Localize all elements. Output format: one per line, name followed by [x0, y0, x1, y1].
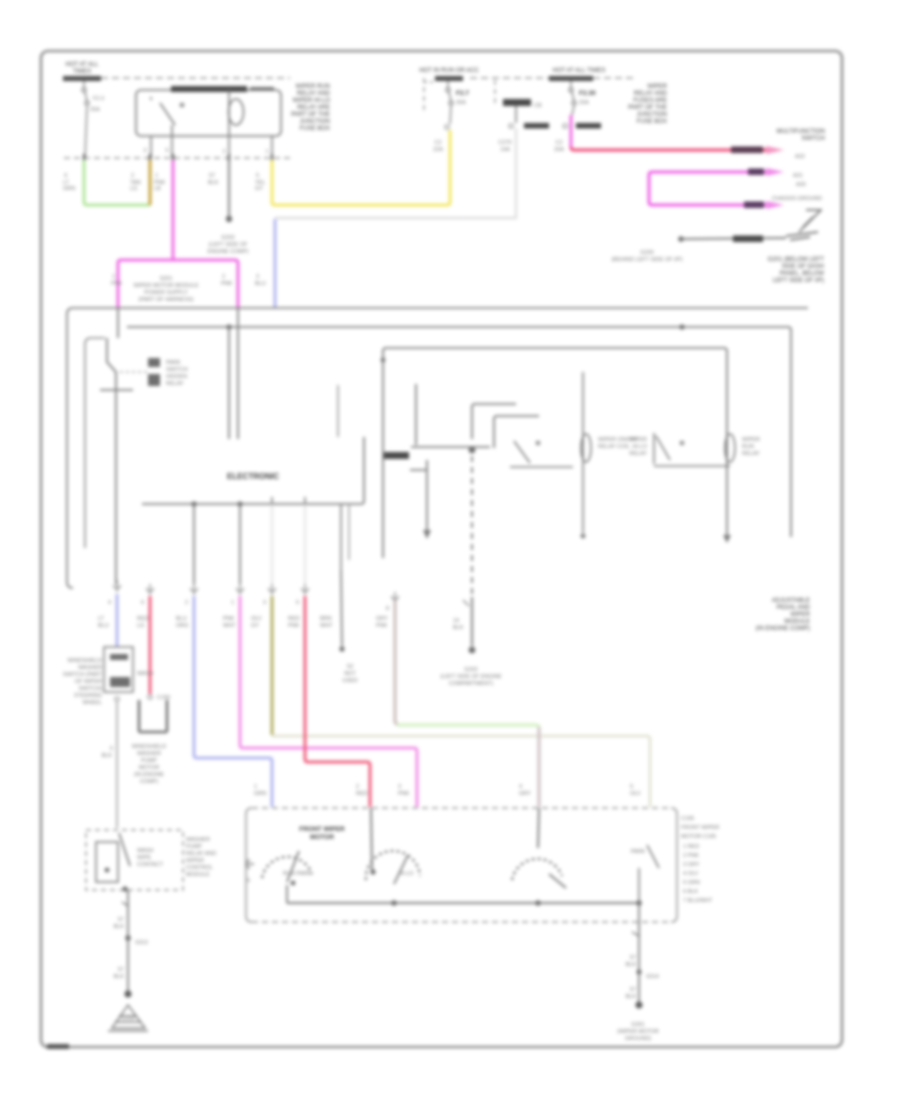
svg-text:OLV: OLV [251, 616, 262, 622]
svg-text:LB: LB [154, 186, 161, 192]
wire label at x330 [320, 616, 333, 629]
label splice S201 left [111, 274, 123, 287]
arrow bottom of x727 wire [723, 535, 731, 543]
svg-text:A30: A30 [796, 182, 806, 188]
svg-text:WIPER MOTOR MODULE: WIPER MOTOR MODULE [134, 283, 199, 289]
svg-text:SWITCH: SWITCH [801, 136, 825, 142]
label pin above motor box x539 [519, 784, 531, 797]
wire gray from switch down to wiper motor cam [116, 702, 118, 828]
svg-text:(LEFT SIDE OF: (LEFT SIDE OF [209, 242, 248, 248]
svg-text:WINDSHIELD: WINDSHIELD [67, 658, 102, 664]
wire black to chassis ground [681, 238, 786, 239]
label pin above motor box x370 [356, 784, 368, 797]
svg-text:ELECTRONIC: ELECTRONIC [227, 472, 279, 481]
svg-text:WIPER RUN: WIPER RUN [296, 84, 330, 90]
label C270 [524, 123, 549, 129]
wire park switch base bus [100, 389, 133, 391]
label fuse F1 value [90, 96, 104, 113]
svg-text:3: 3 [143, 148, 146, 154]
svg-text:PNK: PNK [223, 616, 235, 622]
svg-text:BLU: BLU [98, 623, 109, 629]
wire x341 to splice [341, 570, 342, 646]
node junction bus2 x240 [237, 501, 242, 506]
svg-text:WIPER: WIPER [629, 437, 647, 443]
dashed link park switch [120, 371, 147, 373]
wire x240 bus2 to pin [239, 504, 241, 584]
svg-text:WIPER: WIPER [647, 84, 667, 90]
connector pin (right fuse) [563, 124, 567, 128]
svg-text:RELAY: RELAY [629, 451, 647, 457]
wire periwinkle drop [194, 596, 272, 807]
wire yellow relay pin1 to fuse F7 [272, 130, 450, 205]
svg-text:COMP): COMP) [140, 779, 159, 785]
svg-text:C2: C2 [434, 140, 441, 146]
svg-text:2: 2 [222, 149, 225, 155]
svg-text:FUSE BOX: FUSE BOX [637, 119, 667, 125]
relay K1 coil [229, 90, 244, 136]
svg-text:CONTACT: CONTACT [137, 862, 164, 868]
wire tan relay pin3 down [149, 160, 152, 205]
fuse box bus bar (middle) [435, 76, 463, 81]
svg-text:F2.3: F2.3 [93, 96, 104, 102]
wire dusty drop to green [395, 600, 398, 724]
svg-text:STEERING: STEERING [74, 693, 102, 699]
wire black ground drop x472 [471, 597, 473, 646]
svg-text:JUNCTION: JUNCTION [637, 112, 667, 118]
svg-text:PNK: PNK [221, 281, 233, 287]
wire magenta U to multifunction switch [649, 172, 766, 205]
node: HOT AT ALL TIMES label (left fuse) [65, 62, 99, 75]
label relay K1 name on top edge [171, 86, 247, 92]
wire bus y447 [411, 446, 490, 448]
connector pins at module bottom [114, 580, 470, 606]
label pin above motor box x650 [630, 784, 641, 797]
label wire BLK [208, 173, 219, 186]
svg-text:G200: G200 [640, 250, 653, 256]
pin tick on left ground wire [122, 902, 128, 906]
label splice S201 right [221, 274, 233, 287]
label park switch [166, 360, 188, 387]
label relay coil R2 [742, 437, 760, 457]
wire stub bus2 x305 [304, 497, 306, 504]
svg-text:5: 5 [256, 173, 259, 179]
svg-text:MULTIFUNCTION: MULTIFUNCTION [776, 129, 825, 135]
svg-text:WINDSHIELD: WINDSHIELD [132, 744, 167, 750]
wire label BLU drop [98, 616, 109, 629]
svg-text:1: 1 [155, 173, 158, 179]
svg-text:G202: G202 [464, 667, 477, 673]
svg-text:BLK: BLK [208, 180, 219, 186]
svg-text:MODULE: MODULE [186, 872, 210, 878]
arrow bottom of x427 wire [423, 530, 431, 539]
node junction below corner x383 [381, 358, 386, 363]
svg-text:F2.7: F2.7 [456, 90, 469, 97]
pin number labels below module [108, 600, 389, 612]
label right ground wire lower [626, 987, 637, 1000]
hook wire hi [472, 404, 516, 439]
svg-text:BLU: BLU [255, 281, 266, 287]
node junction x472 y448 [469, 447, 476, 454]
svg-text:HOT AT ALL TIMES: HOT AT ALL TIMES [553, 68, 606, 74]
svg-text:1 RED: 1 RED [683, 844, 699, 850]
wire black relay pin2 to ground splice [228, 160, 230, 216]
svg-text:1: 1 [254, 784, 257, 790]
svg-text:GROUND): GROUND) [625, 1036, 651, 1042]
wire stub arc1 pivot to bus [286, 885, 288, 903]
label beside gray wire [102, 746, 113, 759]
arrow magenta top [766, 168, 784, 176]
svg-text:PART OF THE: PART OF THE [628, 105, 667, 111]
svg-text:RUN: RUN [742, 444, 754, 450]
svg-text:PANEL, BELOW: PANEL, BELOW [780, 271, 825, 277]
fuse box bus bar (left) [63, 76, 101, 81]
svg-text:WASHER: WASHER [186, 837, 210, 843]
fuse F1 (left) [82, 81, 89, 158]
svg-text:2 PNK: 2 PNK [683, 853, 699, 859]
svg-text:BLU: BLU [176, 616, 187, 622]
cam switch arc 1 [262, 857, 312, 878]
svg-text:6: 6 [247, 878, 250, 884]
node splice S2 [339, 646, 344, 651]
wire pale green horizontal [397, 725, 539, 728]
svg-text:(IN ENGINE COMP): (IN ENGINE COMP) [756, 626, 810, 632]
svg-text:14: 14 [453, 618, 459, 624]
cam switch arc 3 [512, 859, 562, 880]
wire green fuse to pin3 [84, 160, 150, 205]
svg-text:GY: GY [255, 186, 263, 192]
svg-text:HIDDEN: HIDDEN [166, 374, 187, 380]
svg-text:CHASSIS GROUND: CHASSIS GROUND [772, 196, 822, 202]
svg-text:PUMP: PUMP [141, 758, 157, 764]
svg-text:ENGINE COMP): ENGINE COMP) [208, 249, 249, 255]
wire blue from splice down to module [274, 219, 277, 308]
svg-text:FRONT WIPER: FRONT WIPER [681, 825, 719, 831]
svg-text:WASH: WASH [137, 671, 153, 677]
wire faint x305 bus2 to pin [304, 504, 306, 584]
wire rose drop [305, 596, 370, 807]
svg-text:RED: RED [137, 616, 149, 622]
svg-text:SIDE OF DASH: SIDE OF DASH [782, 264, 824, 270]
svg-text:4 OLV: 4 OLV [683, 871, 699, 877]
label right ground wire upper [626, 955, 637, 968]
connector blobs park switch [148, 358, 160, 367]
svg-text:WIPE: WIPE [137, 855, 151, 861]
svg-text:G100: G100 [121, 1016, 134, 1022]
node junction on bus at x682 [679, 324, 684, 329]
pin tick on right ground wire [632, 932, 639, 936]
svg-text:(LEFT SIDE OF ENGINE: (LEFT SIDE OF ENGINE [440, 674, 502, 680]
svg-text:RED: RED [356, 791, 368, 797]
svg-text:(BEHIND LEFT SIDE OF I/P): (BEHIND LEFT SIDE OF I/P) [611, 257, 682, 263]
text block top right (junction box note) [628, 84, 668, 125]
wire dusty continuation inside motor box [538, 808, 539, 848]
label below CB [498, 140, 511, 153]
wire internal x228 down [228, 327, 230, 439]
svg-text:CONTROL: CONTROL [186, 865, 213, 871]
wire x194 bus2 to pin [193, 504, 195, 584]
svg-text:WASHER: WASHER [78, 665, 102, 671]
svg-text:RELAY ARE: RELAY ARE [297, 105, 330, 111]
svg-text:HI-LO: HI-LO [399, 871, 414, 877]
svg-text:PNK: PNK [376, 623, 388, 629]
wiper blade arc1 [287, 851, 299, 882]
wire label OLV drop [251, 616, 262, 629]
svg-text:(PART OF HARNESS): (PART OF HARNESS) [138, 297, 193, 303]
relay K1 wiper relay box [136, 90, 281, 136]
svg-text:C270: C270 [498, 140, 511, 146]
switch blade right relay [654, 433, 730, 466]
wire white from C270 down and left to blue [275, 128, 516, 218]
svg-text:S201: S201 [160, 276, 173, 282]
svg-text:G301: G301 [631, 1022, 644, 1028]
svg-text:CB: CB [534, 103, 542, 109]
text block right side (adjustable pedal note) [756, 598, 811, 632]
label on magenta bottom arm [744, 202, 764, 209]
svg-text:22A: 22A [433, 147, 443, 153]
wire stub bus2 x272 [271, 497, 273, 504]
label wire PNK [154, 173, 166, 192]
svg-text:S2: S2 [347, 664, 354, 670]
label wire BLU entering module [255, 274, 266, 287]
svg-text:LG: LG [130, 186, 137, 192]
svg-text:HOT AT ALL: HOT AT ALL [65, 62, 99, 68]
svg-text:(WIPER MOTOR: (WIPER MOTOR [617, 1029, 659, 1035]
svg-text:GRY: GRY [519, 791, 531, 797]
svg-text:PNK: PNK [288, 623, 300, 629]
text block ground note right [768, 257, 825, 284]
svg-text:6: 6 [141, 600, 144, 606]
wire ground drop left [127, 890, 129, 992]
svg-text:FUSE BOX: FUSE BOX [300, 126, 330, 132]
svg-text:BRN: BRN [320, 616, 332, 622]
label right of cam box [186, 837, 216, 878]
chassis ground symbol [786, 210, 822, 240]
wire internal x338 stub [337, 385, 339, 437]
svg-text:WASHER: WASHER [137, 751, 161, 757]
arrow magenta bottom [766, 201, 784, 209]
arrow rose wire [766, 146, 784, 154]
page number label bottom-left [47, 1044, 69, 1049]
svg-text:ORG: ORG [176, 623, 189, 629]
wire internal x238 down [237, 308, 239, 439]
svg-text:PNK: PNK [398, 791, 410, 797]
svg-text:57: 57 [118, 967, 124, 973]
svg-text:PARK: PARK [631, 849, 646, 855]
svg-text:WIPER: WIPER [790, 612, 810, 618]
wire label at x472 [453, 618, 464, 631]
svg-text:30A: 30A [456, 100, 466, 106]
wire pale olive horizontal [272, 736, 650, 807]
svg-text:USED: USED [342, 678, 357, 684]
svg-text:BLK: BLK [102, 753, 113, 759]
svg-text:25A: 25A [90, 107, 100, 113]
svg-text:GY: GY [251, 623, 259, 629]
label left ground wire lower [114, 967, 125, 980]
wire red drop to washer pump [149, 596, 152, 694]
connector pin C (middle fuse) [445, 125, 449, 129]
switch S inside module [510, 441, 573, 467]
cam switch arc 2 [366, 851, 420, 880]
svg-text:TIMES: TIMES [73, 69, 91, 75]
svg-text:WIPER: WIPER [742, 437, 760, 443]
wire dashed fuse box top edge [101, 77, 290, 79]
svg-text:2: 2 [185, 600, 188, 606]
svg-text:2: 2 [356, 784, 359, 790]
label pin above motor box x272 [254, 784, 266, 797]
svg-text:HOT IN RUN OR ACC: HOT IN RUN OR ACC [419, 68, 479, 74]
wire dashed fuse box edges (middle) [424, 78, 549, 113]
label wire DKBLU on rose wire [731, 147, 763, 154]
label G202 [208, 235, 249, 255]
svg-text:FRONT WIPER: FRONT WIPER [299, 826, 345, 833]
module U1 wiper motor module box outline [67, 308, 808, 588]
svg-text:3: 3 [263, 600, 266, 606]
node junction on bus at x228 [226, 324, 231, 329]
switch SW steering column box [104, 647, 133, 692]
svg-text:WASH: WASH [137, 848, 153, 854]
wire pink-leg continuation to park bus [117, 308, 119, 338]
node junction bus x639 [636, 900, 642, 906]
pin on motor box left edge [246, 860, 254, 868]
wire dashed connector line C [64, 157, 290, 159]
wire L bracket x427 [410, 460, 427, 530]
svg-text:20A: 20A [554, 147, 564, 153]
camera box left bottom (wiper park cam) [86, 830, 183, 890]
label splice S2 [342, 664, 357, 684]
svg-text:57: 57 [630, 987, 636, 993]
svg-text:RELAY AND: RELAY AND [634, 91, 668, 97]
relay K1 switch blade [151, 97, 184, 136]
wire right ground lower [638, 972, 640, 1002]
hook wire lo [494, 416, 539, 448]
svg-text:1: 1 [112, 274, 115, 280]
label wire GRN [63, 173, 75, 192]
svg-text:MOTOR: MOTOR [310, 834, 334, 841]
connector pin C270 [509, 124, 513, 128]
ground symbol G301 [617, 1022, 659, 1042]
wire dashed fuse box top edge (right) [593, 77, 634, 79]
svg-text:5: 5 [165, 148, 168, 154]
node splice S313 [125, 935, 131, 941]
svg-text:4: 4 [519, 784, 522, 790]
svg-text:2: 2 [222, 274, 225, 280]
node junction on cam box bottom [122, 886, 127, 891]
label BLK on ground wire [733, 236, 763, 243]
wire relay pin stubs [151, 136, 272, 158]
svg-text:1: 1 [265, 149, 268, 155]
svg-text:BLK: BLK [626, 962, 637, 968]
svg-text:POWER SUPPLY: POWER SUPPLY [144, 290, 188, 296]
svg-text:5: 5 [630, 784, 633, 790]
svg-text:MOTOR C195: MOTOR C195 [681, 834, 716, 840]
svg-text:MODULE: MODULE [784, 619, 810, 625]
svg-text:PART OF THE: PART OF THE [291, 112, 330, 118]
inner contact rect [96, 842, 118, 882]
label wire TAN [130, 173, 141, 192]
label splice S201 center block [134, 276, 199, 303]
svg-text:PNK: PNK [111, 281, 123, 287]
wire internal line y348 [383, 348, 727, 558]
wire faint x272 bus2 to pin [271, 504, 273, 584]
svg-text:LG: LG [137, 623, 144, 629]
svg-text:4: 4 [108, 600, 111, 606]
svg-text:A32: A32 [795, 154, 805, 160]
svg-text:57: 57 [118, 917, 124, 923]
svg-text:RELAY AND: RELAY AND [186, 851, 216, 857]
svg-text:RED: RED [288, 616, 300, 622]
wire rose feed to multifunction switch [570, 115, 573, 147]
fuse F7 (middle) [446, 81, 453, 124]
svg-text:JUNCTION: JUNCTION [300, 119, 330, 125]
svg-text:WHEEL: WHEEL [82, 700, 102, 706]
svg-text:LT: LT [98, 616, 105, 622]
wire label ROSE drop [288, 616, 300, 629]
svg-text:RUN PARK: RUN PARK [283, 871, 311, 877]
svg-text:RELAY: RELAY [742, 451, 760, 457]
svg-text:(IN ENGINE: (IN ENGINE [134, 772, 164, 778]
wire label MAG drop [223, 616, 236, 629]
svg-text:3: 3 [398, 784, 401, 790]
text block right of relay [291, 84, 331, 132]
label washer pump [132, 744, 167, 785]
connector pin washer pump [148, 695, 152, 699]
svg-text:4: 4 [64, 173, 67, 179]
svg-text:WHT: WHT [320, 623, 333, 629]
ground symbol G100 [108, 1005, 148, 1031]
svg-text:PARK: PARK [166, 360, 181, 366]
wire x416 internal [415, 384, 417, 445]
svg-text:LEFT SIDE OF I/P): LEFT SIDE OF I/P) [773, 278, 824, 284]
svg-text:RELAY COIL: RELAY COIL [598, 444, 630, 450]
node ground dot G202b [469, 647, 476, 654]
svg-text:5 GRN: 5 GRN [683, 880, 700, 886]
node ground dot right [635, 1001, 642, 1008]
wire blue drop to column switch [116, 594, 119, 647]
fuse box bus bar (right) [549, 76, 593, 81]
wire ground drop right from motor [638, 903, 640, 970]
label pin above motor box x417 [398, 784, 410, 797]
label left of column switch [63, 658, 103, 706]
wire internal bus2 y504 [142, 437, 364, 504]
svg-text:GRY: GRY [376, 616, 388, 622]
wire rose continuation inside motor box [371, 808, 372, 870]
relay coil R2 on x727 [725, 434, 735, 462]
svg-text:RELAY: RELAY [166, 381, 184, 387]
svg-text:5: 5 [296, 600, 299, 606]
label front wiper motor [299, 826, 345, 841]
circuit breaker CB [494, 80, 496, 106]
svg-text:1: 1 [231, 600, 234, 606]
label left ground wire upper [114, 917, 125, 930]
svg-text:BLK: BLK [626, 994, 637, 1000]
wire motor bus y903 [287, 902, 639, 904]
svg-text:BLK: BLK [453, 625, 464, 631]
label fuse F7 value [456, 90, 469, 106]
wire internal bus B+ [127, 327, 791, 537]
relay coil R1 on x583 [581, 372, 591, 533]
node ground dot left [124, 990, 131, 997]
park switch assembly inside module [85, 338, 105, 548]
label wire YEL [255, 173, 265, 192]
svg-text:ADJUSTABLE: ADJUSTABLE [772, 598, 810, 604]
wire label at x395 [376, 616, 388, 629]
node junction bus2 x194 [191, 501, 196, 506]
svg-text:GRN: GRN [63, 186, 75, 192]
svg-text:S313: S313 [135, 940, 148, 946]
label G200 [611, 250, 682, 263]
svg-text:57: 57 [209, 173, 215, 179]
wire dusty drop into motor box [538, 727, 541, 807]
